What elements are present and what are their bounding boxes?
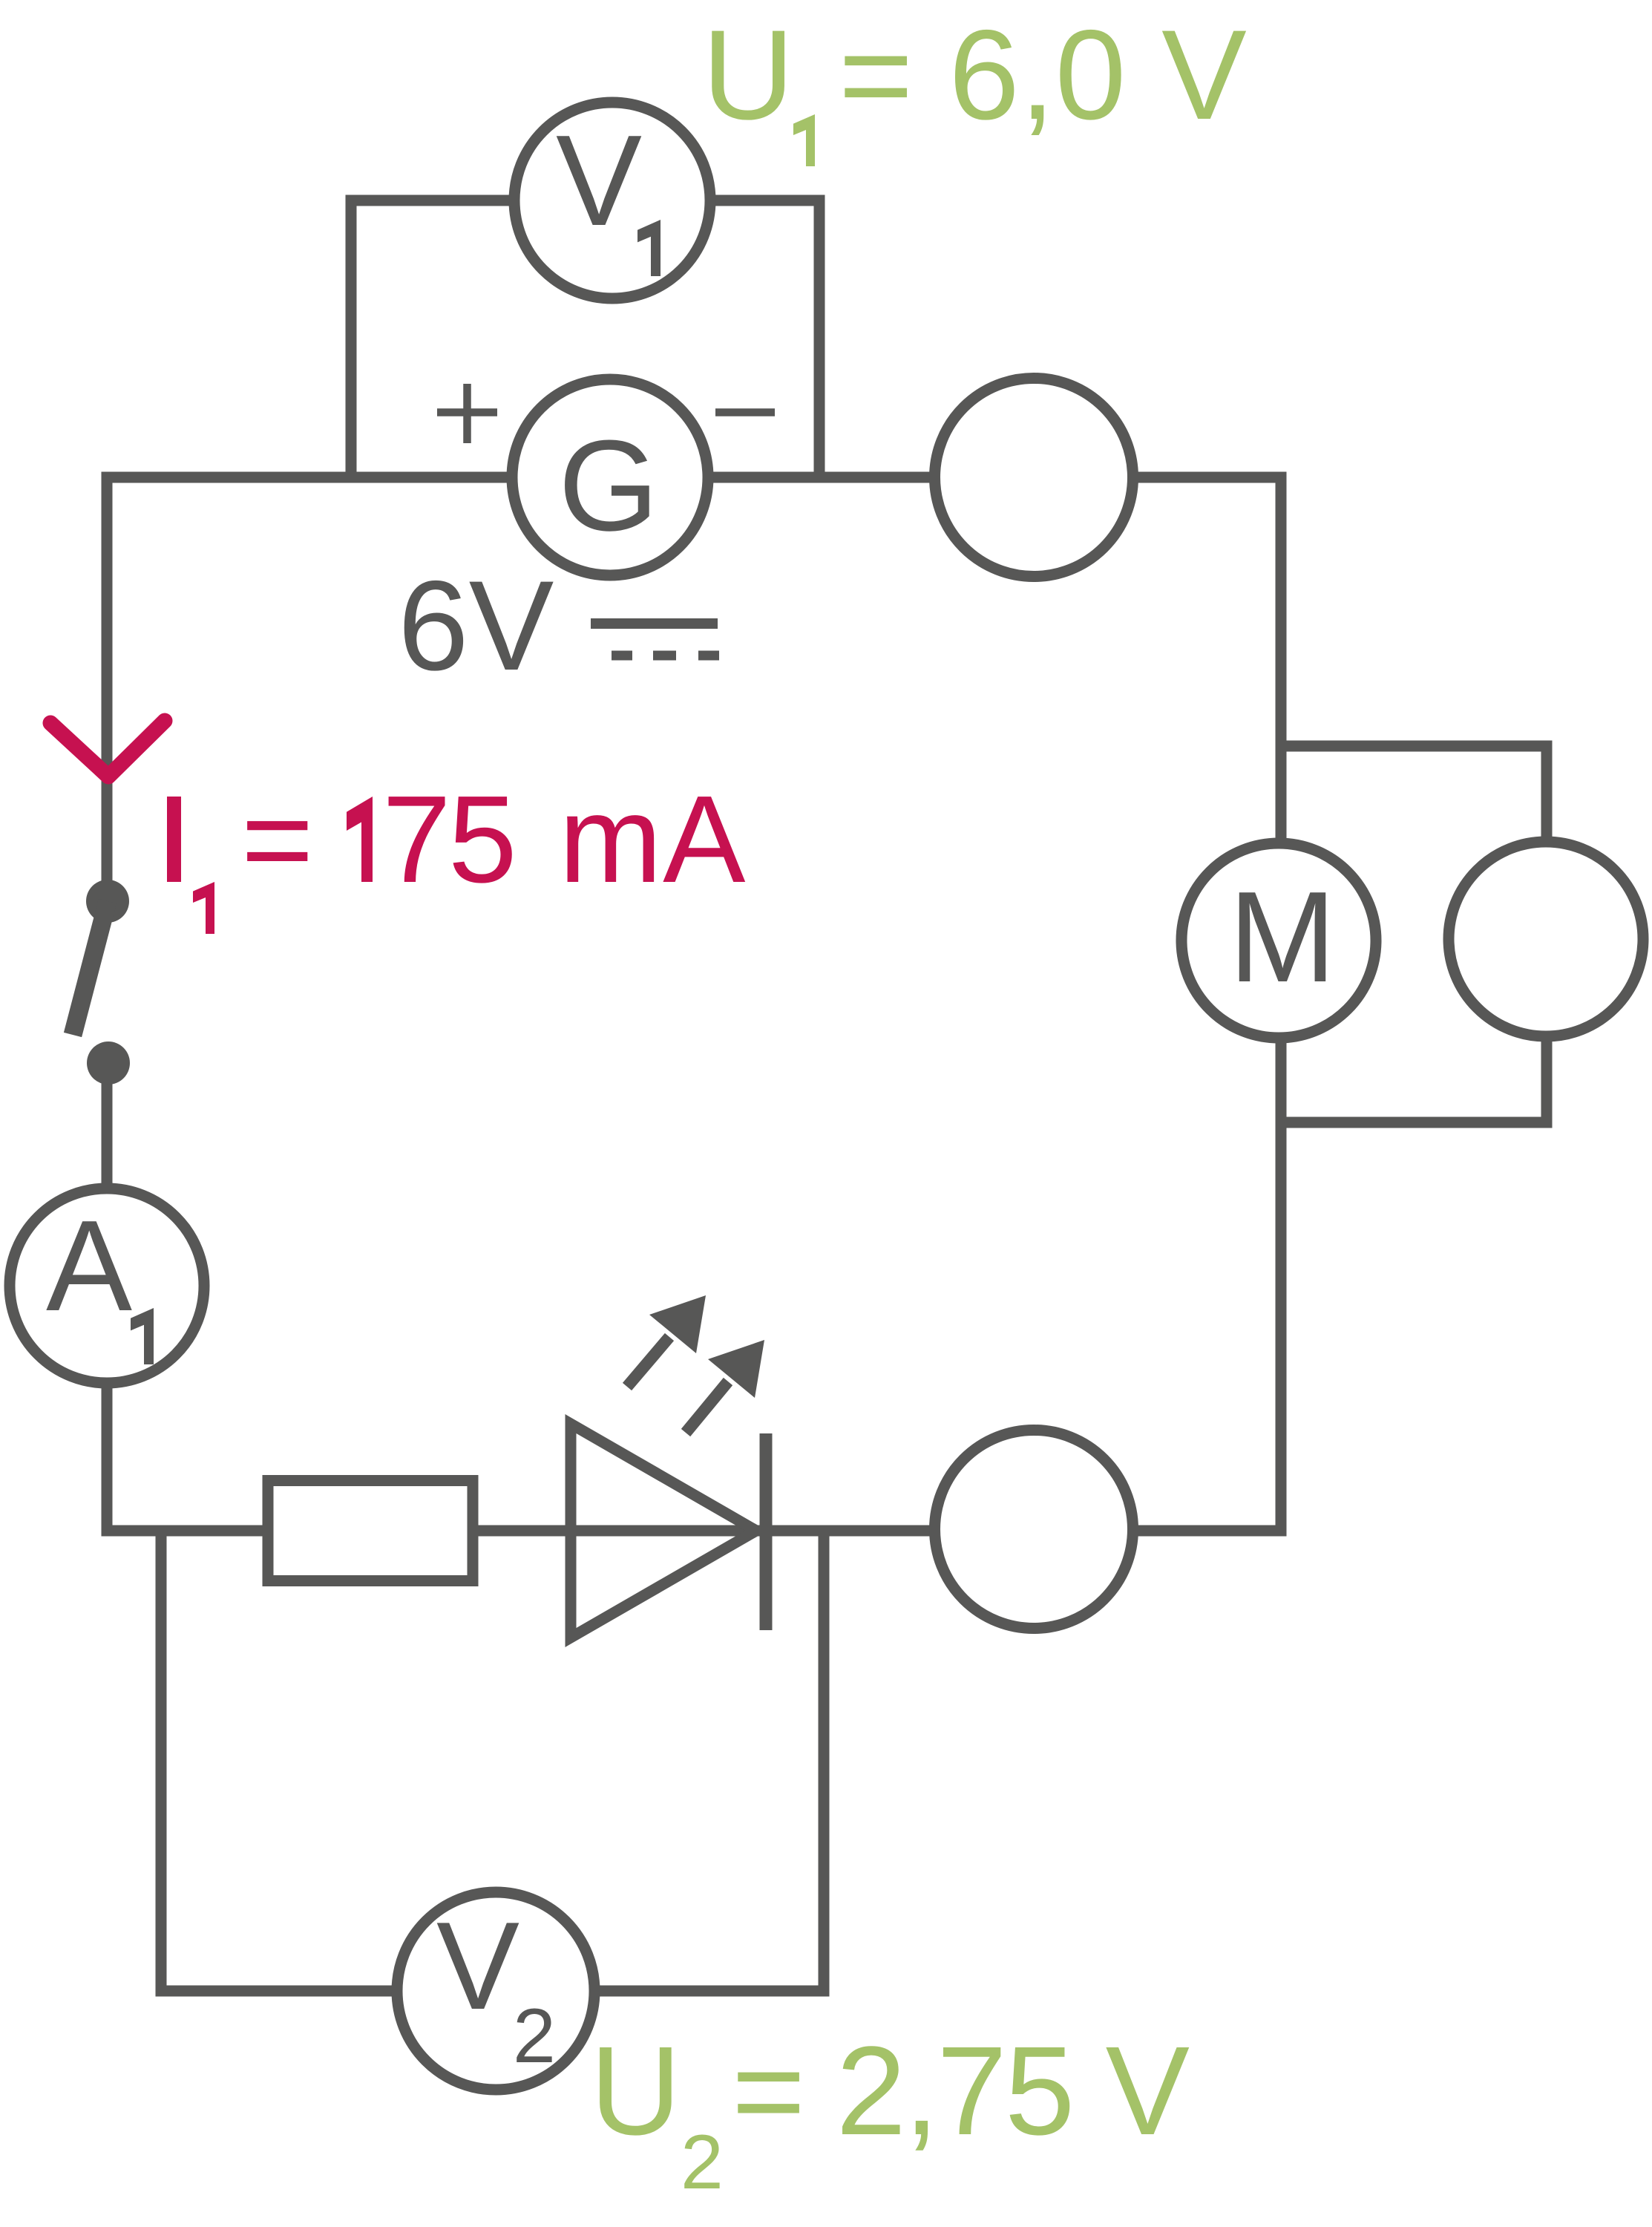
DC symbol dashed bar: [612, 651, 719, 661]
svg-text:U: U: [590, 2021, 681, 2162]
svg-text:75: 75: [382, 771, 514, 909]
switch S1 top contact dot: [86, 880, 129, 923]
lamp E3 (bottom): [935, 1430, 1133, 1629]
svg-text:= 2,75 V: = 2,75 V: [732, 2021, 1190, 2162]
generator plus sign: [437, 384, 497, 443]
label U1 = 6,0 V (green): [702, 4, 1247, 166]
voltmeter V2 circle: [397, 1892, 594, 2090]
svg-text:U: U: [702, 4, 794, 146]
motor M circle: [1181, 843, 1376, 1038]
DC symbol solid bar: [591, 618, 718, 629]
svg-text:2: 2: [513, 1993, 556, 2079]
switch S1 bottom contact dot: [87, 1041, 130, 1085]
generator G circle: [512, 379, 708, 575]
lamp E2 (right, parallel to motor): [1449, 842, 1643, 1036]
LED D1 triangle: [571, 1424, 756, 1638]
wire main circuit loop: [107, 477, 1281, 1531]
label U2 = 2,75 V (green): [590, 2021, 1190, 2205]
wire V1 parallel loop: [351, 200, 819, 477]
generator minus sign: [715, 408, 775, 416]
current direction arrow (red chevron): [50, 721, 165, 776]
svg-text:= 6,0 V: = 6,0 V: [839, 4, 1247, 146]
svg-text:A: A: [46, 1193, 132, 1338]
svg-text:M: M: [1229, 864, 1337, 1009]
LED D1 arrow 2: [686, 1340, 764, 1433]
LED D1 arrow 1: [627, 1295, 706, 1387]
svg-text:6V: 6V: [398, 555, 554, 697]
resistor R1: [268, 1481, 473, 1581]
LED D1 cathode bar: [760, 1433, 773, 1630]
wire motor parallel loop: [1281, 746, 1547, 1122]
svg-text:V: V: [556, 108, 642, 252]
svg-text:V: V: [436, 1896, 519, 2035]
switch S1 lever: [73, 901, 108, 1035]
voltmeter V1 circle: [514, 102, 710, 298]
wire V2 parallel loop: [161, 1531, 824, 1991]
svg-text:2: 2: [681, 2119, 724, 2205]
ammeter A1 circle: [10, 1188, 204, 1383]
svg-text:=: =: [241, 771, 314, 909]
svg-text:mA: mA: [559, 771, 747, 909]
lamp E1 (top): [935, 379, 1133, 577]
label I1 = 175 mA (red): [167, 771, 747, 934]
svg-text:G: G: [558, 413, 658, 557]
